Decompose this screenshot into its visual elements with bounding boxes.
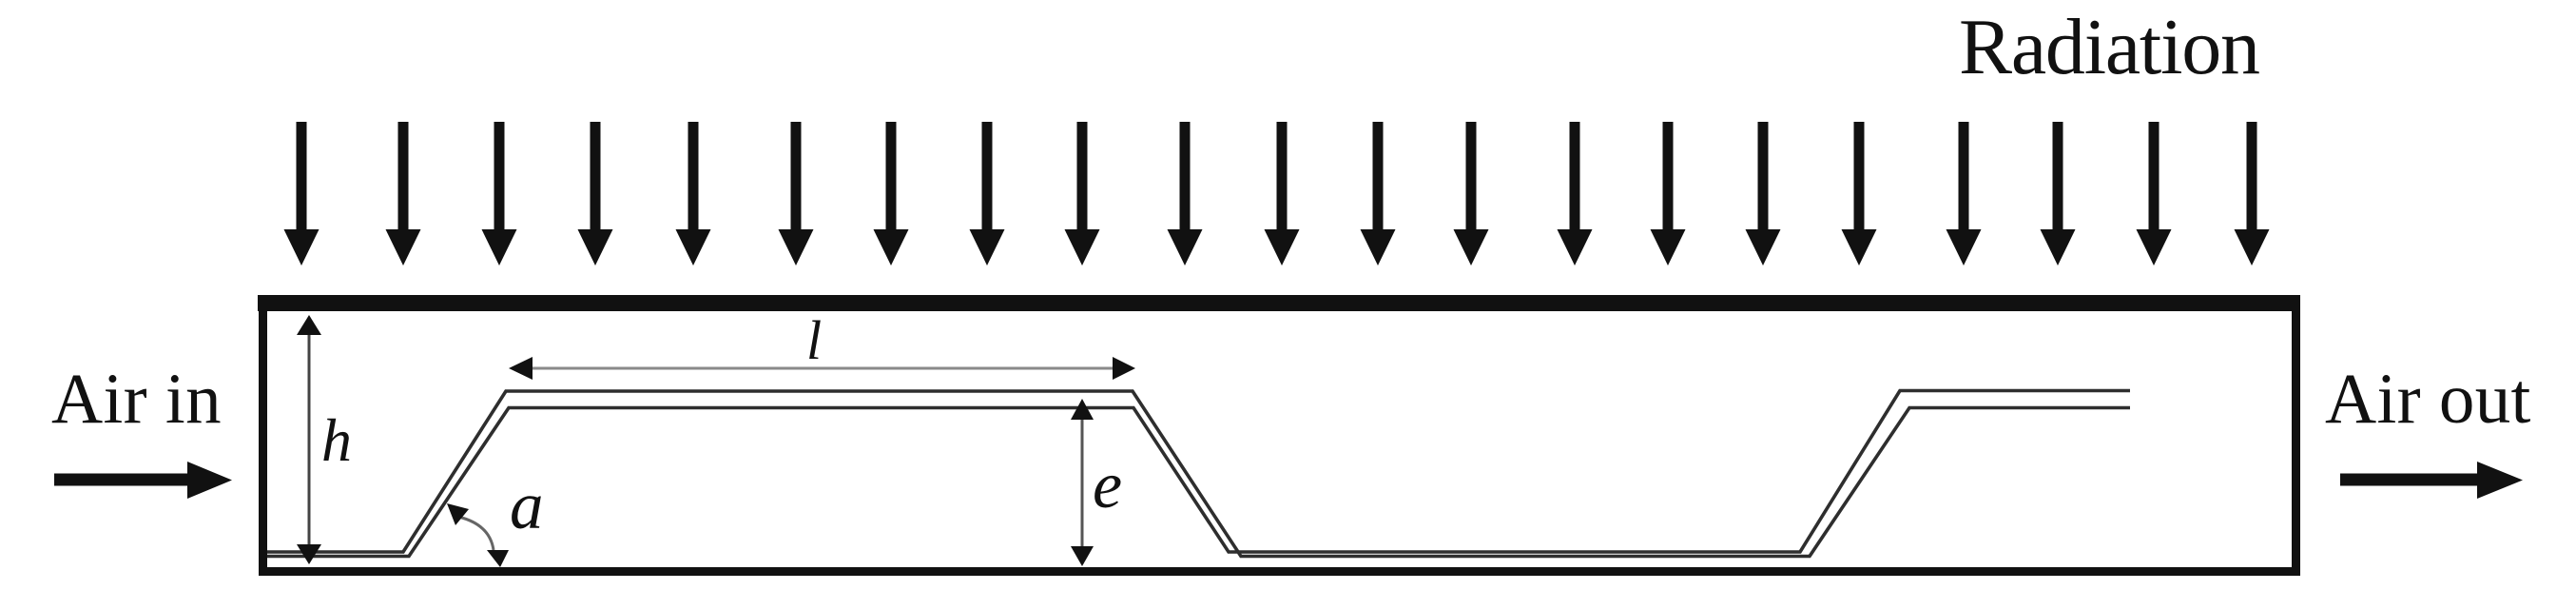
svg-text:a: a bbox=[510, 469, 544, 543]
svg-text:Air out: Air out bbox=[2325, 360, 2531, 439]
svg-text:Radiation: Radiation bbox=[1959, 3, 2259, 91]
svg-text:h: h bbox=[321, 406, 352, 474]
svg-text:e: e bbox=[1093, 449, 1122, 522]
svg-text:Air in: Air in bbox=[51, 360, 222, 439]
svg-text:l: l bbox=[806, 309, 822, 371]
